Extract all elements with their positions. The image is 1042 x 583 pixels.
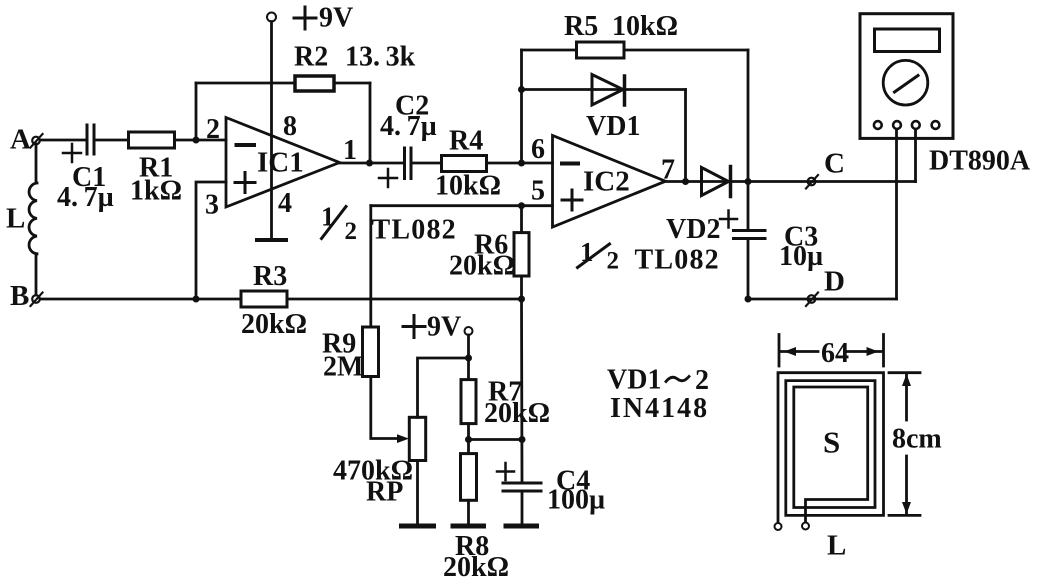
terminal C: [806, 148, 845, 189]
svg-text:100µ: 100µ: [547, 485, 605, 516]
resistor R2: [294, 42, 416, 92]
svg-text:L: L: [6, 203, 25, 235]
ground C4: [506, 524, 537, 529]
svg-text:2: 2: [695, 365, 709, 396]
wire A to C1: [40, 139, 86, 142]
wire C2 to R4: [411, 162, 441, 165]
node pin5: [518, 202, 525, 209]
svg-text:IC2: IC2: [583, 166, 630, 198]
svg-text:20kΩ: 20kΩ: [449, 251, 515, 282]
+9V terminal top: [267, 3, 353, 34]
wire probe black: [895, 130, 898, 300]
svg-text:VD1: VD1: [607, 365, 661, 396]
op-amp IC1: [205, 111, 357, 221]
ground R8: [453, 524, 484, 529]
wire R3 to node: [287, 298, 522, 301]
svg-text:L: L: [827, 530, 846, 562]
wire R1 to pin2: [175, 139, 227, 142]
svg-text:2M: 2M: [323, 352, 363, 383]
wire IC1 output to C2: [340, 162, 405, 165]
wire B to R3: [40, 298, 241, 301]
svg-text:10kΩ: 10kΩ: [612, 11, 678, 42]
diode VD1: [522, 75, 686, 143]
node C4 junction: [519, 436, 526, 443]
diode VD2: [666, 167, 731, 246]
node VD1 tap: [518, 86, 525, 93]
label half TL082 IC2: [578, 237, 720, 276]
svg-text:2: 2: [607, 248, 620, 275]
node RP R7 junction: [465, 355, 472, 362]
svg-text:D: D: [824, 266, 845, 298]
wire R5 right leg: [747, 50, 750, 182]
svg-text:8cm: 8cm: [892, 424, 942, 455]
svg-text:IN4148: IN4148: [610, 393, 709, 424]
dimension 8cm: [889, 373, 942, 516]
resistor R1: [129, 132, 183, 207]
svg-text:TL082: TL082: [635, 245, 720, 276]
svg-text:5: 5: [531, 176, 545, 207]
wire junction to C4: [469, 438, 523, 441]
potentiometer RP: [333, 358, 469, 524]
svg-text:S: S: [823, 425, 840, 460]
wire R4 to pin6: [487, 162, 553, 165]
svg-text:A: A: [10, 124, 31, 156]
svg-text:10µ: 10µ: [779, 241, 823, 272]
wire pin5: [371, 204, 553, 207]
node R6 bottom: [518, 296, 525, 303]
resistor R4: [435, 126, 501, 202]
wire R6 node down to C4: [520, 299, 523, 483]
capacitor C2: [379, 91, 437, 188]
wire C1 to R1: [94, 139, 128, 142]
terminal D: [806, 266, 845, 307]
svg-text:R3: R3: [253, 261, 287, 292]
coil terminal left: [775, 523, 782, 530]
svg-text:6: 6: [531, 134, 545, 165]
wire R9 to wiper: [371, 377, 398, 439]
svg-text:9V: 9V: [427, 312, 461, 343]
svg-text:20kΩ: 20kΩ: [241, 309, 307, 340]
svg-text:2: 2: [206, 114, 220, 145]
svg-text:1: 1: [321, 202, 335, 232]
svg-text:64: 64: [821, 338, 849, 369]
wire +9V down through IC1: [270, 22, 273, 239]
svg-text:C: C: [824, 148, 845, 180]
wire D line: [748, 298, 897, 301]
node C3 top: [745, 178, 752, 185]
capacitor C1: [57, 125, 114, 213]
svg-text:VD1: VD1: [586, 111, 640, 142]
svg-text:20kΩ: 20kΩ: [443, 552, 509, 583]
coil S spiral: [778, 373, 884, 523]
resistor R7: [461, 377, 550, 454]
wire pin5 corner down to R9: [369, 206, 372, 327]
svg-text:R4: R4: [449, 126, 483, 157]
node IC2 output: [682, 178, 689, 185]
label half TL082 IC1: [321, 202, 457, 246]
svg-text:10kΩ: 10kΩ: [435, 171, 501, 202]
svg-text:R2: R2: [294, 42, 328, 73]
terminal A: [10, 124, 43, 156]
svg-text:4. 7µ: 4. 7µ: [57, 182, 114, 213]
resistor R3: [241, 261, 307, 340]
capacitor C4: [497, 463, 605, 524]
wiper arrow RP: [397, 434, 409, 443]
svg-text:8: 8: [283, 111, 297, 142]
node pin6: [518, 160, 525, 167]
wire VD1 right leg: [684, 90, 687, 182]
+9V terminal mid: [403, 312, 473, 343]
svg-text:RP: RP: [366, 477, 403, 508]
wire feedback left leg: [195, 83, 198, 140]
wire pin3: [196, 182, 226, 299]
wire +9V mid down: [467, 335, 470, 380]
svg-text:3: 3: [205, 190, 219, 221]
svg-text:R5: R5: [564, 11, 598, 42]
resistor R9: [322, 327, 379, 383]
terminal B: [10, 280, 43, 312]
svg-text:2: 2: [345, 218, 358, 245]
wire R5 top: [522, 49, 749, 52]
node R7 R8 junction: [465, 436, 472, 443]
resistor R8: [443, 454, 509, 583]
resistor R6: [449, 206, 529, 299]
coil terminal right: [802, 523, 809, 530]
svg-text:4. 7µ: 4. 7µ: [380, 111, 437, 142]
svg-text:1kΩ: 1kΩ: [130, 176, 182, 207]
svg-text:VD2: VD2: [666, 214, 720, 245]
svg-text:IC1: IC1: [257, 147, 304, 179]
svg-text:20kΩ: 20kΩ: [484, 398, 550, 429]
svg-text:13. 3k: 13. 3k: [345, 42, 416, 73]
op-amp IC2: [531, 134, 675, 227]
svg-text:1: 1: [343, 135, 357, 166]
inductor L: [6, 144, 37, 295]
svg-text:TL082: TL082: [372, 215, 457, 246]
svg-text:DT890A: DT890A: [929, 146, 1031, 177]
wire feedback top: [196, 82, 370, 85]
node pin3 junction: [193, 296, 200, 303]
ground RP: [402, 524, 434, 529]
node pin2: [193, 137, 200, 144]
dimension 64: [779, 335, 884, 370]
svg-text:B: B: [10, 280, 29, 312]
wire feedback right leg: [369, 83, 372, 163]
resistor R5: [564, 11, 678, 58]
svg-text:9V: 9V: [319, 3, 353, 34]
label VD1-2 IN4148: [607, 365, 709, 425]
capacitor C3: [720, 182, 823, 300]
ground IC1: [257, 238, 286, 242]
wire feedback vertical IC2: [520, 50, 523, 163]
wire probe red: [914, 130, 917, 182]
node IC1 output: [366, 160, 373, 167]
svg-text:4: 4: [278, 188, 292, 219]
multimeter DT890A: [860, 14, 1031, 177]
wire IC2 output: [666, 180, 916, 183]
node D junction: [745, 296, 752, 303]
